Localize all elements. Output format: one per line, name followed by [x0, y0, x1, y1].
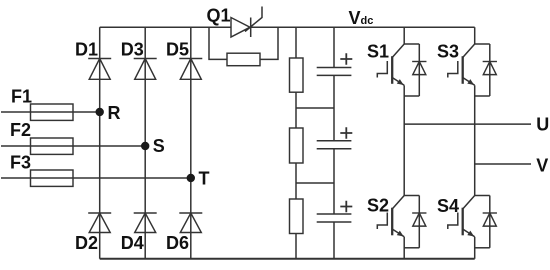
- svg-text:U: U: [536, 115, 549, 135]
- svg-text:S3: S3: [437, 42, 459, 62]
- svg-text:V: V: [536, 156, 548, 176]
- svg-text:D2: D2: [75, 233, 98, 253]
- svg-text:R: R: [108, 103, 121, 123]
- svg-text:F3: F3: [10, 153, 31, 173]
- svg-text:S1: S1: [367, 42, 389, 62]
- svg-text:D4: D4: [121, 233, 144, 253]
- svg-text:D1: D1: [75, 40, 98, 60]
- svg-text:D3: D3: [121, 40, 144, 60]
- svg-text:F1: F1: [11, 87, 32, 107]
- svg-text:T: T: [199, 169, 210, 189]
- svg-text:S: S: [153, 136, 165, 156]
- svg-text:F2: F2: [10, 120, 31, 140]
- svg-text:S4: S4: [437, 196, 459, 216]
- svg-text:Q1: Q1: [207, 6, 231, 26]
- svg-text:Vdc: Vdc: [349, 8, 374, 28]
- svg-text:D5: D5: [166, 40, 189, 60]
- svg-text:D6: D6: [166, 233, 189, 253]
- svg-text:S2: S2: [367, 196, 389, 216]
